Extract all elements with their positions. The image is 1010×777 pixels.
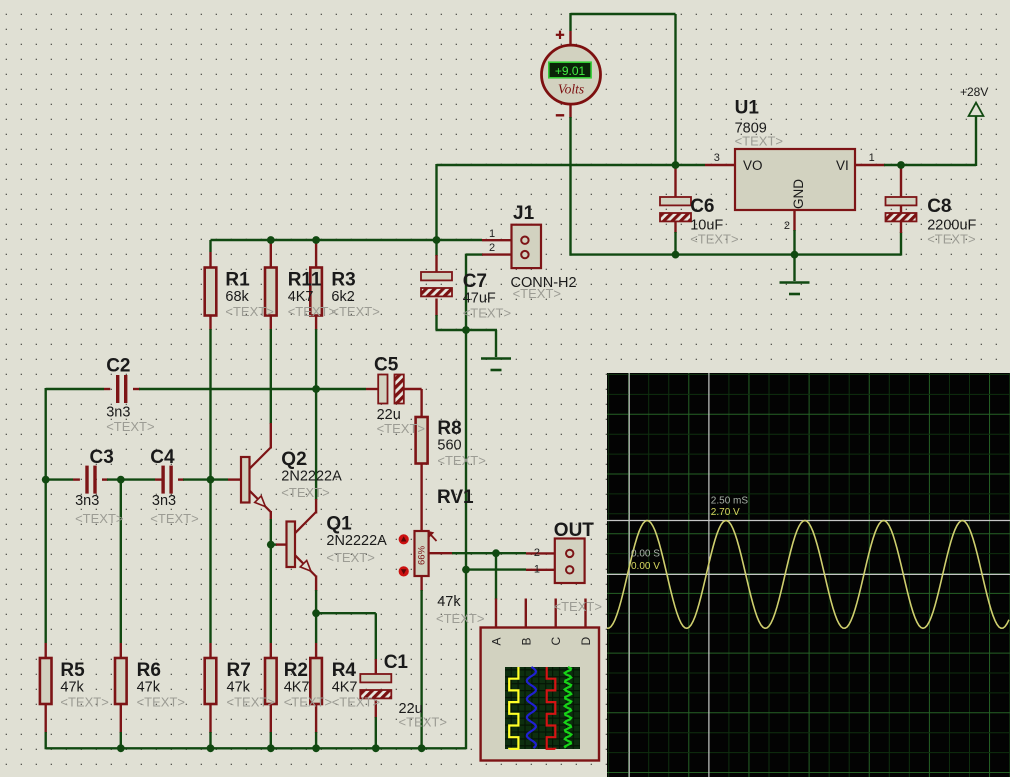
svg-text:4K7: 4K7: [284, 680, 310, 696]
svg-text:<TEXT>: <TEXT>: [927, 232, 975, 247]
svg-text:47k: 47k: [437, 594, 461, 610]
svg-text:+28V: +28V: [960, 85, 988, 99]
svg-text:3n3: 3n3: [152, 493, 176, 509]
svg-text:2: 2: [534, 547, 540, 559]
svg-text:68k: 68k: [225, 289, 249, 305]
svg-text:0.00 S: 0.00 S: [631, 549, 660, 560]
svg-text:47k: 47k: [227, 680, 251, 696]
svg-text:U1: U1: [735, 98, 760, 119]
svg-text:47k: 47k: [60, 680, 84, 696]
svg-text:4K7: 4K7: [332, 680, 358, 696]
svg-text:R3: R3: [331, 270, 355, 291]
svg-text:<TEXT>: <TEXT>: [554, 599, 602, 614]
svg-text:R11: R11: [288, 270, 322, 291]
svg-text:VI: VI: [836, 158, 849, 173]
svg-text:VO: VO: [743, 158, 763, 173]
svg-text:<TEXT>: <TEXT>: [106, 419, 154, 434]
svg-text:2: 2: [784, 220, 790, 232]
svg-text:<TEXT>: <TEXT>: [463, 306, 511, 321]
svg-text:<TEXT>: <TEXT>: [225, 304, 273, 319]
svg-text:<TEXT>: <TEXT>: [331, 304, 379, 319]
svg-text:C1: C1: [384, 652, 409, 673]
svg-text:C: C: [549, 637, 563, 646]
svg-text:C3: C3: [90, 447, 114, 468]
svg-text:3: 3: [714, 152, 720, 164]
svg-text:RV1: RV1: [437, 487, 474, 508]
svg-text:<TEXT>: <TEXT>: [436, 611, 484, 626]
svg-text:A: A: [490, 637, 504, 645]
svg-text:<TEXT>: <TEXT>: [437, 453, 485, 468]
svg-text:J1: J1: [513, 203, 535, 224]
svg-text:2N2222A: 2N2222A: [326, 533, 387, 549]
svg-text:R5: R5: [60, 660, 85, 681]
svg-text:Q2: Q2: [281, 449, 306, 470]
svg-text:R7: R7: [227, 660, 251, 681]
svg-text:R1: R1: [225, 270, 250, 291]
svg-text:560: 560: [437, 438, 461, 454]
svg-text:<TEXT>: <TEXT>: [513, 286, 561, 301]
svg-text:<TEXT>: <TEXT>: [399, 714, 447, 729]
svg-text:<TEXT>: <TEXT>: [284, 695, 332, 710]
svg-text:C5: C5: [374, 355, 399, 376]
svg-text:<TEXT>: <TEXT>: [75, 511, 123, 526]
svg-text:C7: C7: [463, 271, 487, 292]
svg-text:<TEXT>: <TEXT>: [735, 134, 783, 149]
svg-text:<TEXT>: <TEXT>: [288, 304, 336, 319]
svg-text:R6: R6: [137, 660, 161, 681]
svg-text:<TEXT>: <TEXT>: [281, 485, 329, 500]
svg-text:C4: C4: [150, 447, 175, 468]
svg-text:<TEXT>: <TEXT>: [332, 695, 380, 710]
svg-text:0.00 V: 0.00 V: [631, 561, 660, 572]
svg-text:C6: C6: [690, 196, 714, 217]
svg-text:+9.01: +9.01: [555, 64, 586, 78]
svg-text:1: 1: [489, 228, 495, 240]
svg-text:GND: GND: [791, 179, 806, 209]
svg-text:2.70 V: 2.70 V: [711, 507, 740, 518]
svg-text:2N2222A: 2N2222A: [281, 469, 342, 485]
svg-text:4K7: 4K7: [288, 289, 314, 305]
svg-text:6k2: 6k2: [331, 289, 354, 305]
svg-text:1: 1: [869, 152, 875, 164]
svg-text:<TEXT>: <TEXT>: [377, 421, 425, 436]
svg-text:2: 2: [489, 242, 495, 254]
svg-text:Q1: Q1: [326, 513, 352, 534]
svg-text:1: 1: [534, 563, 540, 575]
svg-text:OUT: OUT: [554, 520, 595, 541]
svg-text:66%: 66%: [417, 545, 428, 565]
svg-text:Volts: Volts: [558, 82, 584, 97]
svg-text:R8: R8: [437, 418, 461, 439]
svg-text:C2: C2: [106, 356, 130, 377]
svg-text:2.50 mS: 2.50 mS: [711, 496, 749, 507]
svg-text:C8: C8: [927, 196, 951, 217]
svg-text:B: B: [519, 637, 533, 645]
svg-text:47uF: 47uF: [463, 291, 496, 307]
svg-text:47k: 47k: [137, 680, 161, 696]
svg-text:R4: R4: [332, 660, 357, 681]
svg-text:R2: R2: [284, 660, 308, 681]
svg-text:<TEXT>: <TEXT>: [690, 232, 738, 247]
svg-text:<TEXT>: <TEXT>: [227, 695, 275, 710]
svg-text:3n3: 3n3: [75, 493, 99, 509]
svg-text:D: D: [579, 637, 593, 646]
svg-text:<TEXT>: <TEXT>: [60, 695, 108, 710]
svg-text:<TEXT>: <TEXT>: [326, 550, 374, 565]
svg-text:<TEXT>: <TEXT>: [150, 511, 198, 526]
svg-text:<TEXT>: <TEXT>: [137, 695, 185, 710]
